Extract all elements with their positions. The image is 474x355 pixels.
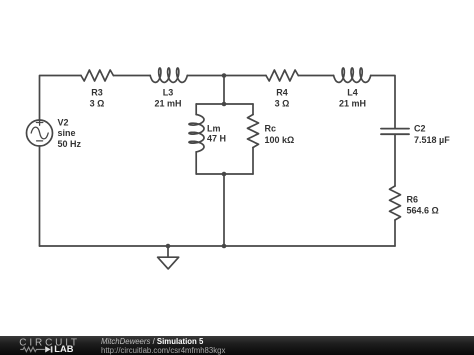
ground <box>167 246 169 257</box>
Lm top stem wire <box>195 104 197 115</box>
svg-text:564.6 Ω: 564.6 Ω <box>407 206 439 216</box>
parallel bottom junction dot <box>222 172 227 177</box>
Rc bottom stem wire <box>252 148 254 175</box>
inductor Lm <box>189 115 204 152</box>
resistor R4 <box>266 70 298 81</box>
parallel top junction dot <box>222 102 227 107</box>
Rc top stem wire <box>252 104 254 115</box>
ground junction dot <box>166 244 171 249</box>
wire V2 top to R3 <box>40 76 82 121</box>
svg-text:sine: sine <box>58 128 76 138</box>
voltage source V2 <box>27 120 53 146</box>
svg-text:Lm: Lm <box>207 124 221 134</box>
svg-text:7.518 µF: 7.518 µF <box>414 135 450 145</box>
capacitor C2 <box>381 129 409 135</box>
svg-text:3 Ω: 3 Ω <box>275 99 290 109</box>
wire R6 to bottom rail <box>394 220 396 246</box>
resistor R6 <box>390 186 401 220</box>
footer bar <box>0 336 474 355</box>
wire R3 to L3 <box>113 75 150 77</box>
parallel bottom bar wire <box>196 173 253 175</box>
wire parallel bottom to rail <box>223 174 225 246</box>
wire node A down to parallel top <box>223 76 225 105</box>
svg-text:50 Hz: 50 Hz <box>58 139 82 149</box>
Lm bottom stem wire <box>195 152 197 174</box>
svg-text:47 H: 47 H <box>207 134 226 144</box>
inductor L4 <box>334 68 371 82</box>
svg-text:C2: C2 <box>414 124 426 134</box>
node A junction dot <box>222 73 227 78</box>
svg-text:L3: L3 <box>163 88 174 98</box>
svg-text:100 kΩ: 100 kΩ <box>265 135 295 145</box>
resistor Rc <box>248 115 259 148</box>
wire C2 to R6 <box>394 134 396 186</box>
wire V2 bottom to rail <box>39 146 41 246</box>
wire L3 to R4 <box>187 75 266 77</box>
svg-text:Rc: Rc <box>265 124 277 134</box>
svg-text:L4: L4 <box>347 88 358 98</box>
wire R4 to L4 <box>298 75 333 77</box>
svg-text:3 Ω: 3 Ω <box>90 99 105 109</box>
svg-text:R6: R6 <box>407 195 419 205</box>
bottom rail junction dot <box>222 244 227 249</box>
parallel top bar wire <box>196 103 253 105</box>
svg-text:R4: R4 <box>276 88 288 98</box>
bottom rail wire <box>40 245 396 247</box>
svg-text:21 mH: 21 mH <box>154 99 181 109</box>
svg-text:21 mH: 21 mH <box>339 99 366 109</box>
inductor L3 <box>150 68 187 82</box>
svg-text:R3: R3 <box>91 88 103 98</box>
wire L4 to right corner and down to C2 <box>371 76 395 129</box>
CircuitLab logo <box>13 337 105 355</box>
svg-text:V2: V2 <box>58 117 69 127</box>
resistor R3 <box>81 70 113 81</box>
svg-text:LAB: LAB <box>54 344 73 354</box>
